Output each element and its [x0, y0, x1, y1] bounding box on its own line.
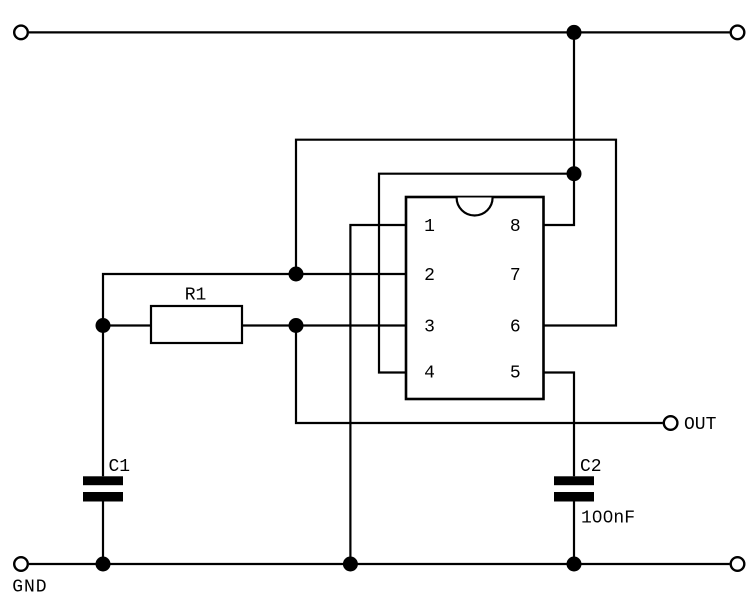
svg-text:C1: C1 — [109, 457, 131, 477]
node B junction R1/pin3/out — [289, 318, 304, 333]
wire pin2-to-pin6 outer loop — [296, 140, 616, 326]
svg-text:1: 1 — [424, 217, 435, 237]
junction top rail at x=574 — [567, 25, 582, 40]
wire pin 4 loop to Vcc node — [379, 174, 574, 373]
svg-text:3: 3 — [424, 318, 435, 338]
wire C1 bottom lead — [102, 502, 104, 565]
capacitor C2 — [554, 457, 635, 528]
wire R1 left lead — [103, 324, 151, 326]
node R1-left / C1-top junction — [96, 318, 111, 333]
wire C2 bottom lead — [573, 502, 575, 565]
svg-text:6: 6 — [510, 318, 521, 338]
junction pin1-ground — [343, 557, 358, 572]
terminal top-right — [731, 26, 745, 40]
svg-text:OUT: OUT — [684, 415, 717, 435]
wire bottom ground rail — [29, 563, 730, 565]
svg-text:C2: C2 — [580, 457, 602, 477]
svg-text:4: 4 — [424, 363, 435, 383]
svg-text:7: 7 — [510, 266, 521, 286]
wire pin 3 stub — [296, 324, 406, 326]
wire output branch to OUT terminal — [296, 326, 663, 424]
wire top supply rail — [29, 31, 730, 33]
junction C2-ground — [567, 557, 582, 572]
node A junction pins2/6 — [289, 267, 304, 282]
svg-text:2: 2 — [424, 266, 435, 286]
resistor R1 — [151, 306, 242, 343]
terminal OUT — [664, 416, 678, 430]
svg-text:GND: GND — [12, 577, 47, 597]
wire R1 right lead — [242, 324, 296, 326]
op-amp U1 8-pin DIP body — [406, 197, 544, 399]
wire left branch from node A down to R1/C1 node — [103, 274, 296, 326]
terminal bottom-left GND — [14, 557, 28, 571]
terminal top-left — [14, 26, 28, 40]
capacitor C1 — [83, 457, 130, 502]
svg-text:5: 5 — [510, 363, 521, 383]
wire C1 top lead — [102, 326, 104, 477]
notch U1 — [457, 198, 493, 216]
terminal bottom-right — [731, 557, 745, 571]
svg-text:R1: R1 — [185, 286, 207, 306]
wire pin 5 down to C2 — [544, 373, 575, 477]
wire pin 2 stub — [296, 273, 406, 275]
svg-text:100nF: 100nF — [581, 508, 635, 528]
svg-text:8: 8 — [510, 217, 521, 237]
wire pin 8 to Vcc node — [544, 174, 575, 225]
wire Vcc vertical from top rail to pin-8 node — [573, 32, 575, 173]
wire pin 1 to ground — [350, 225, 406, 564]
junction C1-ground — [96, 557, 111, 572]
junction Vcc node at (574,173.7) — [567, 166, 582, 181]
